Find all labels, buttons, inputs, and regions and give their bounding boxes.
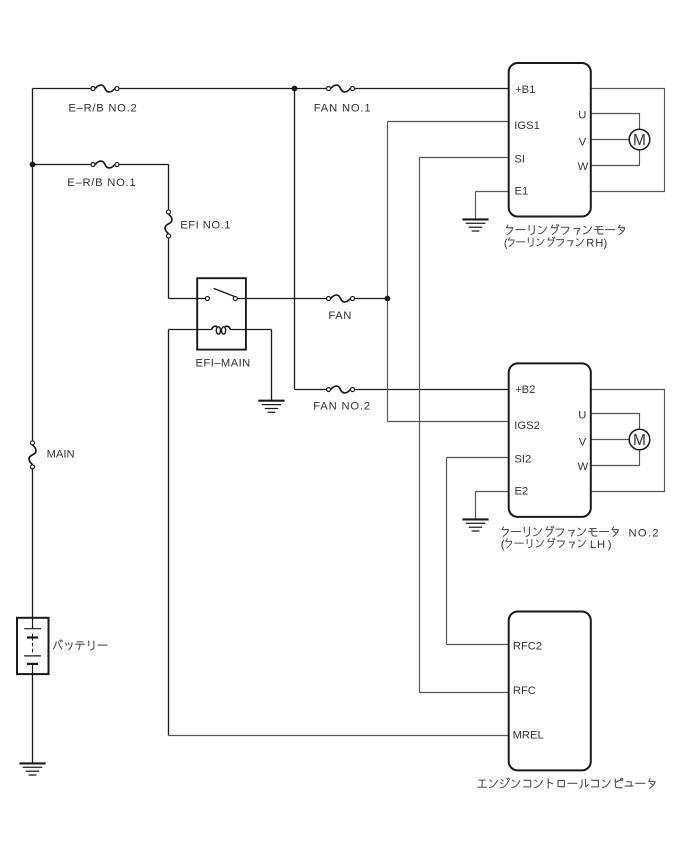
svg-text:+B2: +B2 [515,384,535,396]
svg-text:RH: RH [586,237,604,249]
svg-text:(: ( [501,539,505,551]
svg-text:U: U [578,109,586,121]
svg-text:EFI NO.1: EFI NO.1 [180,220,231,232]
svg-text:RFC2: RFC2 [513,641,542,653]
svg-text:SI: SI [514,154,525,166]
svg-text:+B1: +B1 [515,84,535,96]
svg-text:U: U [578,409,586,421]
svg-text:V: V [579,136,587,148]
svg-text:FAN NO.2: FAN NO.2 [313,401,371,413]
svg-text:MREL: MREL [513,730,544,742]
svg-text:RFC: RFC [513,685,536,697]
svg-text:M: M [633,432,646,449]
svg-text:V: V [579,436,587,448]
svg-text:IGS2: IGS2 [514,420,540,432]
svg-text:M: M [633,132,646,149]
svg-text:MAIN: MAIN [47,448,75,460]
svg-text:W: W [578,461,589,473]
svg-text:): ) [604,237,608,249]
svg-text:LH: LH [590,539,606,551]
svg-text:W: W [578,161,589,173]
svg-text:E2: E2 [515,486,529,498]
svg-text:FAN NO.1: FAN NO.1 [314,103,372,115]
svg-text:IGS1: IGS1 [514,120,540,132]
svg-text:EFI–MAIN: EFI–MAIN [196,358,251,370]
svg-text:): ) [608,539,612,551]
svg-text:FAN: FAN [328,310,352,322]
svg-text:E1: E1 [515,186,529,198]
svg-text:(: ( [504,237,508,249]
svg-text:NO.2: NO.2 [629,528,660,540]
svg-text:E–R/B NO.2: E–R/B NO.2 [68,102,137,114]
svg-text:SI2: SI2 [514,454,531,466]
svg-text:E–R/B NO.1: E–R/B NO.1 [67,177,136,189]
